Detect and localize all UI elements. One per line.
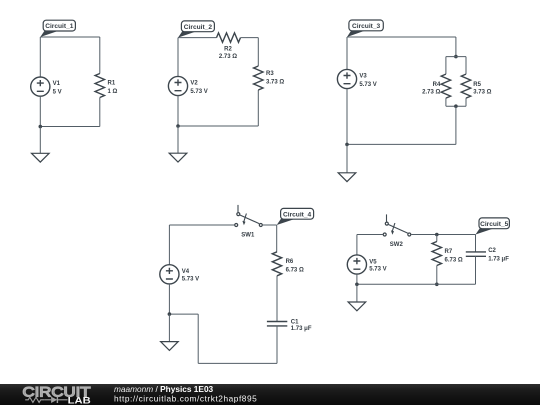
svg-text:6.73 Ω: 6.73 Ω: [286, 267, 304, 273]
wire R5 top lead: [465, 57, 467, 75]
svg-text:V4: V4: [182, 269, 190, 275]
svg-text:V2: V2: [190, 81, 198, 87]
resistor R2: [217, 33, 241, 42]
label R1 1 Ω: [108, 81, 118, 95]
svg-text:SW2: SW2: [390, 242, 404, 248]
label V2 5.73 V: [190, 81, 207, 95]
wire right-top C2: [257, 38, 259, 66]
voltage source V3: [337, 69, 356, 88]
resistor R1: [95, 74, 104, 98]
svg-text:R1: R1: [108, 81, 116, 87]
footer bar: [0, 384, 540, 405]
resistor R6: [272, 252, 281, 276]
wire bottom-left riser C4: [197, 314, 199, 363]
svg-text:1.73 μF: 1.73 μF: [291, 326, 312, 332]
svg-text:5.73 V: 5.73 V: [369, 267, 386, 273]
label R2 2.73 Ω: [219, 47, 237, 61]
wire ground stem C4: [168, 314, 170, 342]
junction dot C1: [39, 125, 43, 129]
svg-text:R3: R3: [266, 71, 274, 77]
switch SW1: [235, 205, 263, 227]
wire right-bottom C2: [257, 90, 259, 126]
resistor R5: [461, 74, 470, 98]
node flag Circuit_5: [476, 218, 510, 235]
wire parallel bottom bar C3: [446, 105, 466, 107]
node flag Circuit_1: [40, 20, 75, 37]
ground C2: [169, 153, 187, 162]
label R6 6.73 Ω: [286, 259, 304, 273]
capacitor C2: [466, 252, 486, 256]
ground C1: [32, 153, 50, 162]
label C1 1.73 μF: [291, 319, 312, 332]
svg-text:2.73 Ω: 2.73 Ω: [422, 90, 440, 96]
resistor R3: [254, 66, 263, 90]
ground C4: [161, 342, 179, 351]
svg-text:Circuit_5: Circuit_5: [480, 221, 509, 228]
svg-text:5.73 V: 5.73 V: [359, 82, 376, 88]
wire top-right C2: [241, 37, 259, 39]
wire flag-to-cap C5: [475, 235, 477, 252]
switch SW2: [383, 214, 411, 236]
wire ground stem C5: [356, 284, 358, 302]
svg-text:V5: V5: [369, 259, 377, 265]
svg-text:Circuit_2: Circuit_2: [184, 24, 213, 31]
voltage source V4: [160, 265, 179, 284]
capacitor C1: [267, 322, 287, 326]
wire left-top C2: [177, 38, 179, 77]
wire ground stem C3: [346, 144, 348, 172]
wire left-bottom C4: [168, 284, 170, 314]
wire bottom C1: [40, 126, 100, 128]
label V1 5 V: [53, 81, 62, 95]
svg-text:R2: R2: [224, 47, 232, 53]
wire right-top C1: [99, 37, 101, 74]
label R7 6.73 Ω: [445, 249, 463, 263]
wire right-bottom C3: [455, 106, 457, 144]
svg-text:R4: R4: [433, 82, 441, 88]
wire junction-arm C4: [169, 313, 198, 315]
wire right-bottom C1: [99, 98, 101, 127]
wire R4 top lead: [445, 57, 447, 75]
wire switch-to-flag C4: [263, 224, 277, 226]
wire ground stem C1: [39, 127, 41, 154]
wire left-bottom C2: [177, 96, 179, 126]
label V4 5.73 V: [182, 269, 199, 282]
svg-text:LAB: LAB: [68, 396, 91, 405]
voltage source V1: [31, 77, 50, 96]
svg-text:http://circuitlab.com/ctrkt2ha: http://circuitlab.com/ctrkt2hapf895: [114, 393, 257, 403]
junction dot C2: [176, 124, 180, 128]
svg-text:Circuit_1: Circuit_1: [45, 23, 74, 30]
wire cap-to-bottom C4: [276, 326, 278, 364]
logo schematic diode: [44, 397, 67, 403]
svg-text:C2: C2: [488, 248, 496, 254]
wire left-top C1: [39, 37, 41, 77]
node flag Circuit_3: [347, 20, 383, 37]
wire R4 bottom lead: [445, 98, 447, 106]
wire R7 bottom lead: [436, 266, 438, 285]
label R3 3.73 Ω: [266, 71, 284, 85]
svg-text:6.73 Ω: 6.73 Ω: [445, 257, 463, 263]
wire top C3: [347, 36, 456, 38]
svg-text:5.73 V: 5.73 V: [190, 89, 207, 95]
wire left-top C4: [168, 225, 170, 265]
voltage source V2: [168, 76, 187, 95]
svg-text:5.73 V: 5.73 V: [182, 277, 199, 283]
junction dot C3 left: [345, 143, 349, 147]
wire right drop C3: [455, 37, 457, 57]
wire bottom C5: [357, 283, 476, 285]
svg-text:R5: R5: [473, 82, 481, 88]
svg-text:R6: R6: [286, 259, 294, 265]
svg-text:V3: V3: [359, 74, 367, 80]
svg-text:1 Ω: 1 Ω: [108, 89, 118, 95]
wire bottom C3: [347, 143, 456, 145]
svg-text:3.73 Ω: 3.73 Ω: [266, 80, 284, 86]
svg-text:C1: C1: [291, 319, 299, 325]
label V5 5.73 V: [369, 259, 386, 272]
wire left-bottom C1: [39, 96, 41, 126]
svg-text:Circuit_4: Circuit_4: [283, 211, 312, 218]
svg-text:1.73 μF: 1.73 μF: [488, 256, 509, 262]
wire parallel top bar C3: [446, 56, 466, 58]
junction dot C3 bottom: [454, 104, 458, 108]
junction dot C4: [168, 312, 172, 316]
node flag Circuit_4: [277, 208, 314, 225]
ground C5: [348, 302, 366, 311]
wire top-left C2: [178, 37, 217, 39]
wire R7 top lead: [436, 235, 438, 242]
svg-text:3.73 Ω: 3.73 Ω: [473, 90, 491, 96]
junction dot C5 R7top: [435, 233, 439, 237]
wire top-left C4: [169, 224, 234, 226]
junction dot C3 top: [454, 55, 458, 59]
junction dot C5 R7bottom: [435, 283, 439, 287]
label C2 1.73 μF: [488, 248, 509, 263]
svg-text:2.73 Ω: 2.73 Ω: [219, 54, 237, 60]
wire switch-to-flag C5: [411, 234, 475, 236]
node flag Circuit_2: [178, 21, 214, 38]
wire cap-to-bottom C5: [475, 256, 477, 284]
svg-text:V1: V1: [53, 81, 61, 87]
label R4 2.73 Ω: [422, 82, 441, 96]
ground C3: [338, 173, 356, 182]
wire bottom C2: [178, 125, 258, 127]
wire left-top C5: [356, 235, 358, 255]
label V3 5.73 V: [359, 74, 376, 88]
wire left-top C3: [346, 37, 348, 69]
svg-text:SW1: SW1: [241, 233, 255, 239]
wire left-bottom C5: [356, 274, 358, 284]
wire ground stem C2: [177, 126, 179, 153]
voltage source V5: [347, 255, 366, 274]
svg-text:R7: R7: [445, 249, 453, 255]
wire bottom C4: [198, 362, 277, 364]
junction dot C5 left: [355, 283, 359, 287]
wire left-bottom C3: [346, 89, 348, 145]
svg-text:5 V: 5 V: [53, 90, 62, 96]
resistor R4: [441, 74, 450, 98]
svg-text:Circuit_3: Circuit_3: [352, 23, 381, 30]
resistor R7: [432, 242, 441, 266]
wire R5 bottom lead: [465, 98, 467, 106]
wire right-top C4: [276, 225, 278, 252]
logo schematic resistor: [25, 397, 44, 402]
wire top C1: [40, 36, 100, 38]
wire top-left C5: [357, 234, 383, 236]
label R5 3.73 Ω: [473, 82, 491, 96]
wire R6-to-C1cap C4: [276, 276, 278, 322]
